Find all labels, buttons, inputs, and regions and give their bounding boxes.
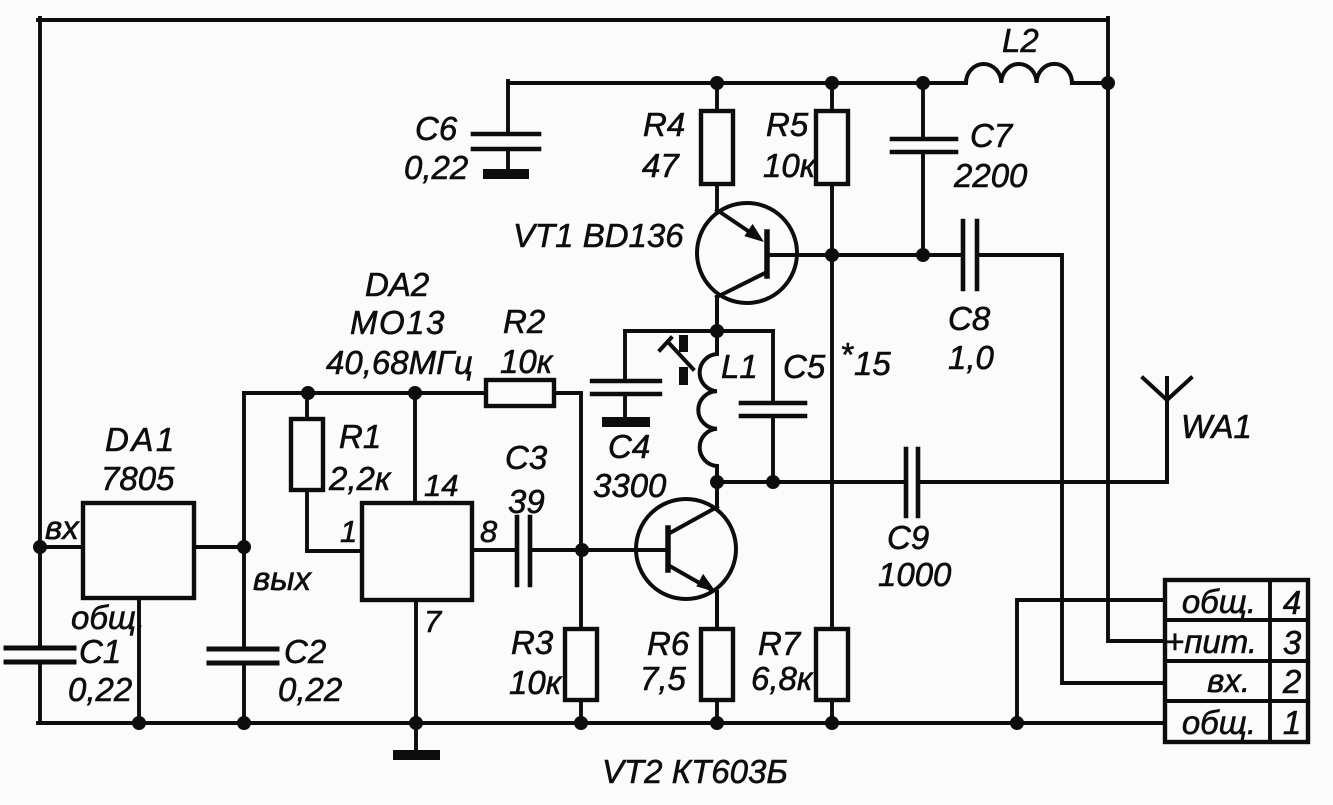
svg-text:вх.: вх. [1207, 662, 1250, 699]
node R6 gnd [710, 716, 724, 730]
svg-text:R7: R7 [758, 625, 802, 662]
svg-text:1000: 1000 [878, 556, 952, 593]
label C3 [505, 439, 548, 520]
svg-text:0,22: 0,22 [278, 671, 342, 708]
svg-text:*: * [840, 336, 854, 373]
svg-text:DA1: DA1 [105, 421, 177, 458]
transistor VT1 [697, 203, 797, 303]
wire L1 top node horizontal [625, 329, 773, 333]
svg-text:7805: 7805 [101, 460, 175, 497]
node R1 top [301, 386, 315, 400]
wire DA1 input [40, 545, 83, 549]
svg-text:7: 7 [424, 604, 443, 639]
svg-text:0,22: 0,22 [68, 671, 132, 708]
label C1 [68, 633, 132, 708]
wire L1 bottom node to C9 [717, 480, 906, 484]
svg-text:L1: L1 [721, 348, 758, 385]
node R3 gnd [574, 716, 588, 730]
capacitor C8 [963, 221, 977, 289]
node C5 bottom [766, 475, 780, 489]
node R7 gnd [825, 716, 839, 730]
label R4 [642, 106, 685, 184]
svg-text:1,0: 1,0 [948, 339, 995, 376]
resistor R2 [486, 380, 554, 406]
wire DA2 pin 14 [413, 393, 417, 503]
capacitor C1 [6, 648, 74, 662]
label R3 [509, 624, 563, 701]
wire left border lower [38, 664, 42, 723]
label C2 [278, 633, 342, 708]
label C6 [404, 110, 468, 186]
ground symbol under DA2 [414, 723, 418, 750]
node DA2 gnd [409, 716, 423, 730]
wire C2 vertical branch [242, 393, 246, 723]
svg-text:2,2к: 2,2к [328, 460, 392, 497]
node L2 right [1101, 76, 1115, 90]
svg-text:39: 39 [508, 483, 545, 520]
wire connector pin 4 to ground rail [1017, 600, 1165, 723]
wire DA2 supply rail y393 [244, 391, 486, 395]
node DA1 gnd [132, 716, 146, 730]
connector X1 box [1165, 580, 1308, 742]
svg-text:общ.: общ. [71, 599, 145, 636]
svg-text:C9: C9 [887, 519, 929, 556]
op-amp DA2 [362, 503, 472, 600]
label DA1 [101, 421, 177, 497]
node VT1 collector L1 [710, 324, 724, 338]
node R4 rail [710, 76, 724, 90]
svg-text:10к: 10к [509, 664, 563, 701]
svg-text:6,8к: 6,8к [751, 660, 814, 697]
svg-text:C2: C2 [284, 633, 326, 670]
wire DA1 ground pin [137, 598, 141, 723]
node DA1 output [237, 540, 251, 554]
node C3 out [575, 543, 589, 557]
node VT1 base R5 [825, 248, 839, 262]
label C4 [593, 428, 667, 504]
wire VT1 base to C8 [767, 253, 961, 257]
svg-text:R5: R5 [766, 106, 809, 143]
resistor R5 [830, 83, 834, 256]
svg-text:14: 14 [424, 468, 458, 503]
svg-text:15: 15 [854, 345, 891, 382]
wire right border +supply down to pin 3 [1108, 18, 1166, 641]
ground bar of C6 [483, 169, 529, 179]
label R2 [500, 303, 554, 380]
svg-text:3300: 3300 [593, 467, 667, 504]
svg-text:C1: C1 [79, 633, 121, 670]
resistor R6 [701, 629, 733, 700]
trimmer core of L1 [679, 335, 688, 352]
wire R5 to R7 vertical [830, 255, 834, 629]
svg-text:3: 3 [1283, 624, 1302, 661]
inductor L2 [966, 64, 1072, 83]
svg-text:C4: C4 [608, 428, 650, 465]
svg-text:C3: C3 [505, 439, 548, 476]
svg-text:R1: R1 [339, 418, 381, 455]
capacitor C6 [473, 134, 539, 149]
svg-text:общ.: общ. [1182, 704, 1256, 741]
svg-text:4: 4 [1283, 584, 1301, 621]
svg-text:VT2 КТ603Б: VT2 КТ603Б [602, 753, 788, 790]
antenna WA1 [1143, 378, 1191, 482]
svg-text:C6: C6 [415, 110, 458, 147]
wire DA2 pin 7 [414, 600, 418, 723]
wire DA1 output [194, 545, 244, 549]
label R1 [328, 418, 392, 497]
label C9 [878, 519, 952, 593]
capacitor C7 [921, 83, 925, 257]
svg-text:8: 8 [480, 514, 498, 549]
capacitor C3 [472, 548, 517, 552]
capacitor C2 [209, 649, 277, 663]
label DA2 [326, 266, 473, 381]
svg-text:C8: C8 [948, 300, 991, 337]
op-amp DA1 [83, 503, 194, 598]
svg-text:L2: L2 [1002, 22, 1039, 59]
svg-text:2: 2 [1282, 663, 1301, 700]
wire top border [38, 18, 1108, 22]
wire RF supply rail [508, 81, 966, 85]
svg-text:47: 47 [642, 147, 680, 184]
resistor R1 [307, 393, 362, 551]
svg-text:0,22: 0,22 [404, 149, 468, 186]
svg-text:VT1 BD136: VT1 BD136 [513, 217, 684, 254]
svg-text:вых: вых [253, 560, 313, 597]
capacitor C9 [906, 449, 918, 516]
svg-text:2200: 2200 [953, 157, 1028, 194]
svg-text:10к: 10к [763, 147, 817, 184]
svg-text:МО13: МО13 [350, 304, 446, 341]
svg-text:WA1: WA1 [1181, 408, 1252, 445]
svg-text:+пит.: +пит. [1165, 623, 1257, 660]
node C7 rail [916, 76, 930, 90]
svg-text:10к: 10к [500, 343, 554, 380]
node R5 rail [825, 76, 839, 90]
svg-text:1: 1 [340, 514, 357, 549]
svg-text:C5: C5 [783, 348, 826, 385]
wire left border upper [38, 18, 42, 646]
wire bottom ground rail [38, 721, 1166, 725]
svg-text:вх: вх [45, 509, 80, 546]
wire R2 down to R3 [579, 393, 583, 629]
label C8 [948, 300, 995, 376]
svg-text:общ.: общ. [1182, 583, 1256, 620]
label R7 [751, 625, 814, 697]
resistor R3 [565, 629, 597, 700]
node connector gnd [1010, 716, 1024, 730]
node C2 gnd [237, 716, 251, 730]
wire RF rail right end to border [1072, 81, 1109, 85]
wire C8 to connector pin 2 [979, 255, 1166, 683]
svg-text:R4: R4 [643, 106, 685, 143]
node L1 bottom [710, 475, 724, 489]
capacitor C4 [623, 331, 627, 379]
inductor L1 [698, 331, 717, 482]
svg-text:C7: C7 [970, 117, 1014, 154]
ground bar of C4 [602, 417, 650, 427]
svg-text:7,5: 7,5 [640, 660, 687, 697]
label R5 [763, 106, 817, 184]
node DA2 pin14 [408, 386, 422, 400]
svg-text:40,68МГц: 40,68МГц [326, 344, 473, 381]
wire C6 stub [506, 151, 510, 169]
capacitor C5 [771, 331, 775, 401]
svg-text:R3: R3 [511, 624, 554, 661]
svg-text:1: 1 [1283, 704, 1301, 741]
svg-text:R2: R2 [503, 303, 545, 340]
svg-text:R6: R6 [647, 625, 690, 662]
node C7 bottom [916, 248, 930, 262]
label R6 [640, 625, 690, 697]
svg-text:DA2: DA2 [365, 266, 429, 303]
resistor R4 [715, 83, 719, 210]
transistor VT2 [636, 499, 736, 599]
label C7 [953, 117, 1028, 194]
resistor R7 [816, 629, 848, 700]
wire C9 to antenna [918, 480, 1167, 484]
node DA1 input [33, 540, 47, 554]
wire C6 drop [506, 81, 510, 134]
